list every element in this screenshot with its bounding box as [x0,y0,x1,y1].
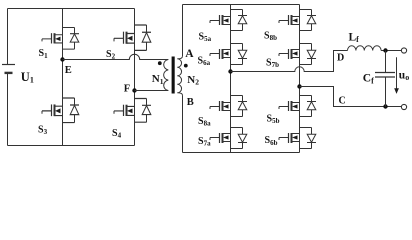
transistor S3 [42,98,79,123]
svg-text:S6a: S6a [198,56,211,68]
wire: primary left rail lower [7,74,9,146]
wire: primary left rail upper [7,9,9,65]
wire: leg2 mid to node C and bottom output rail [300,87,402,107]
svg-text:S5a: S5a [199,32,212,44]
svg-text:S2: S2 [106,49,116,61]
capacitor Cf bottom lead [385,77,387,107]
transistor S5a [210,10,247,31]
svg-text:S8a: S8a [198,116,211,128]
wire: secondary leg 1 [230,5,232,153]
wire: node A lead to top rail [182,5,184,57]
svg-text:S1: S1 [39,48,49,60]
transformer secondary polarity dot [184,64,188,68]
svg-text:S7b: S7b [266,58,279,70]
svg-text:A: A [185,48,194,60]
wire: inductor to top output terminal [381,50,401,52]
svg-text:N2: N2 [187,74,199,87]
wire: F to transformer primary [135,90,169,92]
junction dot bottom output [383,104,387,108]
transistor S7b [279,44,316,65]
output voltage uo arrow [396,57,398,88]
svg-text:D: D [337,53,344,64]
wire: primary bottom rail [8,145,135,147]
svg-text:F: F [124,84,130,95]
battery U1 long plate [2,64,15,66]
wire: secondary leg 2 [299,5,301,153]
node F junction dot [132,88,136,92]
capacitor Cf top lead [385,51,387,73]
svg-text:S5b: S5b [267,114,280,126]
svg-text:S8b: S8b [264,31,277,43]
svg-text:Cf: Cf [363,73,374,86]
node D junction dot on leg 1 [228,69,232,73]
wire: primary top rail [8,8,135,10]
svg-text:S4: S4 [112,128,122,140]
junction dot after inductor [383,48,387,52]
svg-text:B: B [187,97,194,108]
wire: secondary bottom rail [183,152,300,154]
node C junction dot on leg 2 [297,84,301,88]
wire: bridge leg 2 [134,9,136,146]
svg-text:S3: S3 [38,124,48,136]
top output terminal circle [401,48,406,53]
wire: E to transformer primary [63,54,169,59]
transistor S8a [210,96,247,117]
transistor S5b [279,96,316,117]
svg-text:U1: U1 [21,70,34,85]
svg-text:S6b: S6b [265,135,278,147]
wire: leg1 mid to node D with hop over leg2 [231,51,348,72]
wire: node B lead to bottom rail [182,95,184,152]
transistor S4 [114,99,151,123]
transistor S1 [42,28,79,50]
capacitor Cf plates [375,73,395,78]
wire: bridge leg 1 [62,9,64,146]
inductor Lf [348,46,382,51]
transformer secondary winding N2 [177,56,182,95]
svg-text:N1: N1 [152,73,164,86]
transistor S2 [114,25,151,50]
transformer primary winding N1 [164,60,169,91]
bottom output terminal circle [401,104,406,109]
svg-text:E: E [65,65,72,76]
transistor S6b [279,128,316,149]
svg-text:C: C [339,95,346,106]
transistor S8b [279,10,316,31]
svg-text:uo: uo [399,70,409,83]
svg-text:S7a: S7a [198,136,211,148]
transistor S6a [210,44,247,65]
svg-text:Lf: Lf [349,31,360,44]
transformer primary polarity dot [158,61,162,65]
wire: secondary top rail [183,4,300,6]
transformer core [172,57,175,94]
transistor S7a [210,128,247,149]
node E junction dot [60,57,64,61]
battery U1 short plate [5,72,13,74]
